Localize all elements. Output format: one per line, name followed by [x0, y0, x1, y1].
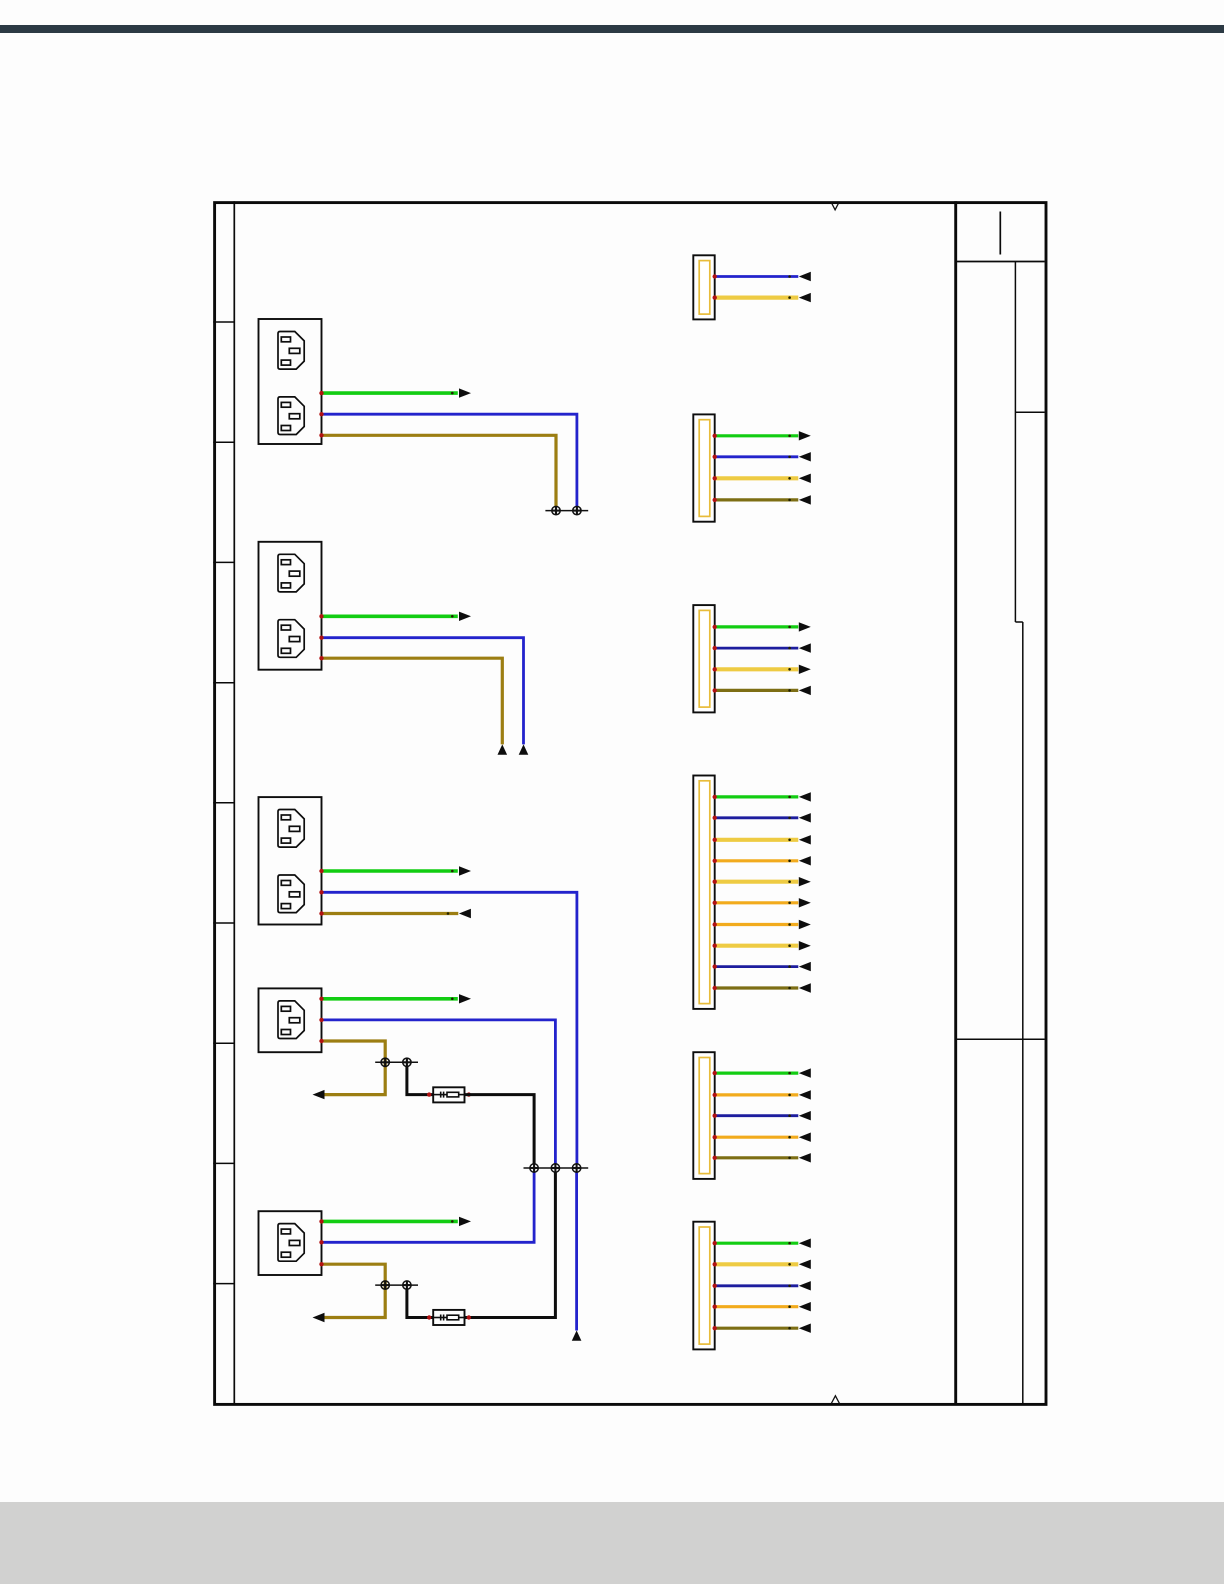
- wire CN4-4 O line: [715, 859, 799, 862]
- wire CN4-5 arrow: [799, 877, 811, 886]
- pin dot P3-3: [319, 911, 323, 915]
- splice S1b: [573, 506, 582, 515]
- zone tick 4: [213, 682, 234, 684]
- wire CN4-1 G line: [715, 795, 799, 798]
- wire CN2-3 Y line: [715, 476, 799, 480]
- wire P2 dark-yellow end triangle: [498, 744, 508, 754]
- AC inlet connector P2: [259, 542, 322, 670]
- pin dot P3-1: [319, 869, 323, 873]
- frame left zone strip line: [233, 201, 235, 1404]
- wire P3 blue line: [322, 892, 577, 1163]
- centering mark bottom caret: [831, 1396, 839, 1404]
- wire P5 dark-yellow arrow: [313, 1313, 325, 1322]
- wire CN2-4 VR line: [715, 498, 799, 501]
- pin dot P3-2: [319, 890, 323, 894]
- wire CN2-1 dot: [788, 435, 791, 438]
- pin dot P4-3: [319, 1039, 323, 1043]
- header bar: [0, 25, 1224, 33]
- wire CN6-5 VR line: [715, 1327, 799, 1330]
- wire P5 green dot: [451, 1220, 454, 1223]
- wire P5 green line: [322, 1220, 458, 1224]
- pin dot CN5-3: [713, 1114, 717, 1118]
- pin dot CN3-4: [713, 688, 717, 692]
- wire CN3-3 dot: [788, 668, 791, 671]
- wire CN3-1 dot: [788, 626, 791, 629]
- wire CN4-6 arrow: [799, 898, 811, 907]
- wire P3 dark-yellow arrow: [459, 909, 471, 918]
- wire P4 green line: [322, 997, 458, 1001]
- fuse F2 pin dot right: [467, 1315, 471, 1319]
- wire CN5-2 O line: [715, 1093, 799, 1096]
- wire CN6-2 Y line: [715, 1262, 799, 1266]
- connector block CN2: [693, 414, 714, 521]
- wire P1 green arrow: [459, 388, 471, 397]
- wire P4 green dot: [451, 998, 454, 1001]
- wire CN5-1 G line: [715, 1071, 799, 1074]
- pin dot CN2-1: [713, 434, 717, 438]
- wire P3 green line: [322, 869, 458, 873]
- fuse F2: [433, 1310, 464, 1325]
- wire CN4-2 Bn line: [715, 816, 799, 819]
- wire CN5-4 dot: [788, 1136, 791, 1139]
- pin dot CN4-7: [713, 922, 717, 926]
- wire CN2-4 dot: [788, 499, 791, 502]
- wire CN4-3 dot: [788, 839, 791, 842]
- title block cell line full: [956, 1038, 1045, 1040]
- wire CN4-1 arrow: [799, 792, 811, 801]
- wire CN5-2 dot: [788, 1094, 791, 1097]
- splice S3a: [381, 1281, 390, 1290]
- pin dot CN4-10: [713, 986, 717, 990]
- title block top cell tick: [999, 212, 1001, 255]
- pin dot CN6-1: [713, 1241, 717, 1245]
- wire CN2-2 arrow: [799, 452, 811, 461]
- fuse F1 pin dot left: [427, 1092, 431, 1096]
- drawing frame border: [215, 203, 1046, 1405]
- pin dot CN4-6: [713, 901, 717, 905]
- wire P3 dark-yellow dot: [447, 912, 450, 915]
- fuse F1: [433, 1087, 464, 1102]
- junction tie line J row: [524, 1167, 589, 1169]
- connector block CN6: [693, 1222, 714, 1350]
- wire CN3-4 VR line: [715, 689, 799, 692]
- wire CN5-5 dot: [788, 1157, 791, 1160]
- wire CN5-5 VR line: [715, 1156, 799, 1159]
- wire CN3-2 Bn line: [715, 647, 799, 650]
- wire P3 dark-yellow line: [322, 912, 459, 915]
- wire CN6-1 dot: [788, 1242, 791, 1245]
- wire CN2-3 dot: [788, 477, 791, 480]
- wire CN6-1 G line: [715, 1242, 799, 1245]
- wire CN4-2 arrow: [799, 813, 811, 822]
- wire CN5-1 dot: [788, 1072, 791, 1075]
- wire CN6-4 O line: [715, 1305, 799, 1308]
- wire CN3-1 arrow: [799, 622, 811, 631]
- splice J2: [551, 1164, 560, 1173]
- zone tick 2: [213, 441, 234, 443]
- wire CN5-4 arrow: [799, 1133, 811, 1142]
- pin dot P2-1: [319, 614, 323, 618]
- title block inner vertical upper: [1014, 262, 1016, 623]
- wire CN2-1 G line: [715, 434, 799, 437]
- pin dot P2-2: [319, 636, 323, 640]
- wire P2 green arrow: [459, 612, 471, 621]
- pin dot P5-3: [319, 1262, 323, 1266]
- wire CN6-4 arrow: [799, 1302, 811, 1311]
- wire CN4-4 arrow: [799, 856, 811, 865]
- splice J3: [572, 1164, 581, 1173]
- pin dot CN6-3: [713, 1284, 717, 1288]
- wire P5 blue line: [322, 1172, 535, 1242]
- wire P1 dark-yellow line: [322, 435, 557, 506]
- pin dot CN2-4: [713, 498, 717, 502]
- pin dot CN3-3: [713, 667, 717, 671]
- wire CN4-1 dot: [788, 796, 791, 799]
- pin dot CN1-2: [713, 295, 717, 299]
- zone tick 7: [213, 1042, 234, 1044]
- pin dot CN5-2: [713, 1093, 717, 1097]
- pin dot P1-2: [319, 412, 323, 416]
- wire P1 green dot: [451, 392, 454, 395]
- wire CN6-5 dot: [788, 1327, 791, 1330]
- wire CN3-4 dot: [788, 689, 791, 692]
- wire CN2-2 dot: [788, 456, 791, 459]
- wire fuse F1 black to junction: [465, 1095, 535, 1164]
- splice S1a: [552, 506, 561, 515]
- wire CN4-9 arrow: [799, 962, 811, 971]
- wire CN4-3 arrow: [799, 835, 811, 844]
- pin dot P1-3: [319, 433, 323, 437]
- AC inlet connector P3: [259, 797, 322, 924]
- wire CN1-1 dot: [788, 275, 791, 278]
- wire CN3-2 dot: [788, 647, 791, 650]
- pin dot CN2-3: [713, 476, 717, 480]
- wire CN6-5 arrow: [799, 1324, 811, 1333]
- wire CN2-2 Bb line: [715, 455, 799, 458]
- wire CN4-4 dot: [788, 860, 791, 863]
- title block top cell line: [956, 261, 1045, 263]
- wire P2 dark-yellow line: [322, 658, 503, 744]
- wire CN6-3 Bn line: [715, 1284, 799, 1287]
- wire CN4-8 Y line: [715, 944, 799, 948]
- pin dot P5-2: [319, 1240, 323, 1244]
- wire CN1-2 dot: [788, 296, 791, 299]
- wire CN4-3 Y line: [715, 838, 799, 842]
- wire CN2-3 arrow: [799, 474, 811, 483]
- pin dot CN5-4: [713, 1135, 717, 1139]
- splice J1: [530, 1164, 539, 1173]
- wire CN5-1 arrow: [799, 1068, 811, 1077]
- splice S3b: [403, 1281, 412, 1290]
- wire CN4-9 dot: [788, 965, 791, 968]
- wire CN3-3 Y line: [715, 667, 799, 671]
- pin dot CN5-1: [713, 1071, 717, 1075]
- wire CN6-4 dot: [788, 1305, 791, 1308]
- fuse F1 pin dot right: [467, 1092, 471, 1096]
- wire CN4-8 dot: [788, 944, 791, 947]
- wire blue drop end triangle: [572, 1331, 582, 1341]
- wire CN4-5 dot: [788, 880, 791, 883]
- pin dot CN5-5: [713, 1156, 717, 1160]
- wire P4 dark-yellow loop: [322, 1041, 386, 1095]
- centering mark top V: [831, 203, 839, 210]
- wire CN6-1 arrow: [799, 1239, 811, 1248]
- wire CN4-9 Bn line: [715, 965, 799, 968]
- wire CN5-3 arrow: [799, 1111, 811, 1120]
- wire CN3-2 arrow: [799, 643, 811, 652]
- pin dot CN2-2: [713, 455, 717, 459]
- wire CN2-1 arrow: [799, 431, 811, 440]
- wire CN3-3 arrow: [799, 665, 811, 674]
- pin dot P4-1: [319, 997, 323, 1001]
- wire CN4-7 O line: [715, 923, 799, 926]
- pin dot CN4-2: [713, 816, 717, 820]
- title block cell line right: [1015, 411, 1044, 413]
- pin dot P4-2: [319, 1018, 323, 1022]
- pin dot CN6-2: [713, 1262, 717, 1266]
- wire CN6-2 arrow: [799, 1260, 811, 1269]
- wire CN4-7 dot: [788, 923, 791, 926]
- zone tick 9: [213, 1283, 234, 1285]
- wire CN5-5 arrow: [799, 1153, 811, 1162]
- connector block CN1: [693, 255, 714, 319]
- wire P1 green line: [322, 391, 458, 395]
- wire P4 green arrow: [459, 994, 471, 1003]
- wire fuse F2 lead black left: [407, 1289, 433, 1317]
- wire CN3-4 arrow: [799, 686, 811, 695]
- AC inlet connector P4: [259, 988, 322, 1052]
- wire CN5-3 Bn line: [715, 1114, 799, 1117]
- wire fuse F1 lead black left: [407, 1067, 433, 1095]
- wire P4 blue line: [322, 1020, 556, 1164]
- wire CN3-1 G line: [715, 625, 799, 628]
- title strip divider: [954, 201, 957, 1404]
- connector block CN4: [693, 776, 714, 1009]
- wire CN4-10 arrow: [799, 983, 811, 992]
- pin dot CN4-3: [713, 838, 717, 842]
- connector block CN3: [693, 605, 714, 712]
- zone tick 1: [213, 321, 234, 323]
- pin dot CN3-2: [713, 646, 717, 650]
- pin dot CN4-8: [713, 944, 717, 948]
- AC inlet connector P1: [259, 319, 322, 444]
- wire CN5-4 O line: [715, 1136, 799, 1139]
- pin dot CN4-1: [713, 795, 717, 799]
- splice S2a: [381, 1058, 390, 1067]
- wire P2 green dot: [451, 615, 454, 618]
- pin dot CN4-4: [713, 859, 717, 863]
- wire CN1-2 Y line: [715, 296, 799, 300]
- wire CN1-1 Bb line: [715, 275, 799, 278]
- pin dot CN4-5: [713, 880, 717, 884]
- wire CN4-8 arrow: [799, 941, 811, 950]
- wire CN1-1 arrow: [799, 272, 811, 281]
- splice tie line S1: [545, 510, 588, 512]
- wire P2 blue end triangle: [519, 744, 529, 754]
- splice tie line S2: [375, 1061, 418, 1063]
- wire P4 dark-yellow arrow: [313, 1090, 325, 1099]
- zone tick 6: [213, 922, 234, 924]
- connector block CN5: [693, 1052, 714, 1179]
- pin dot P2-3: [319, 656, 323, 660]
- pin dot P1-1: [319, 391, 323, 395]
- wire CN5-3 dot: [788, 1114, 791, 1117]
- title block jog step: [1015, 621, 1022, 623]
- wire CN1-2 arrow: [799, 293, 811, 302]
- wire CN5-2 arrow: [799, 1090, 811, 1099]
- wire CN6-3 dot: [788, 1285, 791, 1288]
- splice S2b: [403, 1058, 412, 1067]
- wire P2 blue line: [322, 638, 524, 745]
- wire P3 green arrow: [459, 866, 471, 875]
- wire P5 dark-yellow loop: [322, 1264, 386, 1317]
- pin dot CN3-1: [713, 625, 717, 629]
- wire CN6-3 arrow: [799, 1281, 811, 1290]
- pin dot CN6-5: [713, 1326, 717, 1330]
- wire CN4-10 VR line: [715, 986, 799, 989]
- pin dot CN1-1: [713, 274, 717, 278]
- pin dot CN6-4: [713, 1305, 717, 1309]
- wire P5 green arrow: [459, 1217, 471, 1226]
- wire CN4-6 dot: [788, 902, 791, 905]
- wire CN4-10 dot: [788, 987, 791, 990]
- wire fuse F2 black from junction: [465, 1172, 556, 1317]
- pin dot P5-1: [319, 1219, 323, 1223]
- wire blue drop line: [575, 1172, 578, 1330]
- zone tick 5: [213, 802, 234, 804]
- title block inner vertical lower: [1022, 622, 1024, 1404]
- pin dot CN4-9: [713, 964, 717, 968]
- footer bar: [0, 1502, 1224, 1584]
- wire CN4-5 Y line: [715, 880, 799, 884]
- zone tick 8: [213, 1162, 234, 1164]
- zone tick 3: [213, 561, 234, 563]
- wire CN6-2 dot: [788, 1263, 791, 1266]
- wire P3 green dot: [451, 870, 454, 873]
- wire CN2-4 arrow: [799, 495, 811, 504]
- fuse F2 pin dot left: [427, 1315, 431, 1319]
- wire CN4-6 O line: [715, 901, 799, 904]
- AC inlet connector P5: [259, 1211, 322, 1275]
- splice tie line S3: [375, 1284, 418, 1286]
- wire CN4-2 dot: [788, 817, 791, 820]
- wire CN4-7 arrow: [799, 920, 811, 929]
- wire P2 green line: [322, 614, 458, 618]
- wire P1 blue line: [322, 414, 577, 506]
